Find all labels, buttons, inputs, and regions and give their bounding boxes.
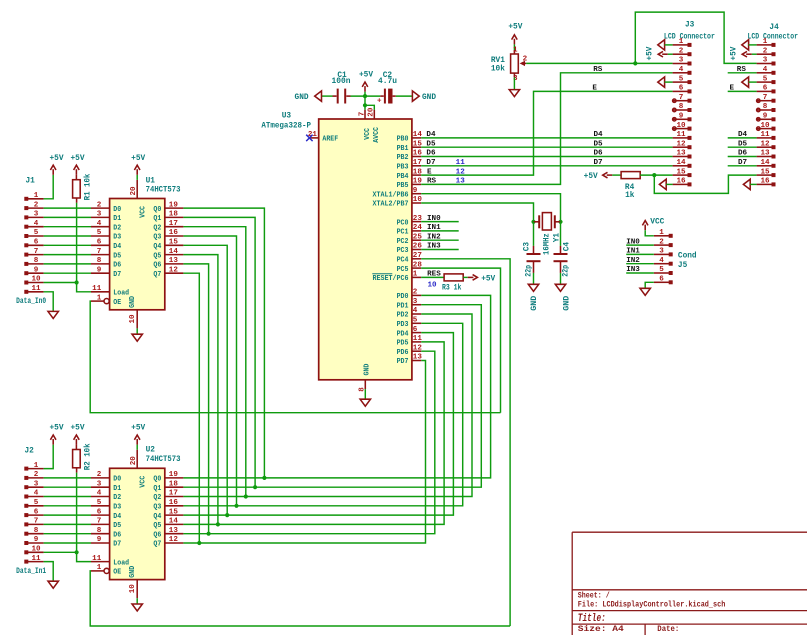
- svg-text:2: 2: [97, 471, 102, 479]
- wire R4 to J3.15: [640, 174, 672, 176]
- wire IN2 from U3.PC2: [421, 239, 459, 241]
- wire U1 Q7 down to bus junction: [183, 273, 199, 543]
- U1 pin 5 D3: [91, 235, 110, 237]
- svg-text:7: 7: [763, 94, 768, 102]
- wire J5.6 to GND: [645, 282, 654, 288]
- svg-text:Title:: Title:: [578, 613, 606, 625]
- svg-text:3: 3: [763, 57, 768, 65]
- svg-text:D7: D7: [113, 541, 121, 549]
- svg-text:2: 2: [523, 56, 528, 64]
- svg-text:Q1: Q1: [153, 485, 161, 493]
- svg-text:U1: U1: [146, 177, 156, 185]
- wire J1 pin2 to U1 D0: [44, 207, 91, 209]
- U2 +5V power symbol: [136, 445, 138, 450]
- J2 pin 6: [24, 513, 28, 517]
- svg-text:5: 5: [34, 229, 39, 237]
- svg-text:7: 7: [358, 111, 366, 116]
- svg-text:XTAL1/PB6: XTAL1/PB6: [373, 191, 409, 199]
- svg-text:11: 11: [760, 131, 770, 139]
- junction Q4 bus: [225, 513, 229, 517]
- svg-text:IN0: IN0: [626, 238, 640, 246]
- svg-text:E: E: [592, 84, 597, 92]
- wire J1 pin9 to U1 D7: [44, 272, 91, 274]
- wire J2 pin3 to U2 D1: [44, 486, 91, 488]
- U3 pin 26 PC3: [412, 249, 421, 251]
- wire J2 pin4 to U2 D2: [44, 496, 91, 498]
- svg-text:3: 3: [97, 211, 102, 219]
- U1 pin 13 Q6: [165, 263, 184, 265]
- R1 +5V power symbol: [75, 175, 77, 180]
- svg-text:PB0: PB0: [397, 136, 409, 144]
- svg-text:16: 16: [413, 150, 423, 158]
- svg-text:Q4: Q4: [153, 243, 161, 251]
- R2 +5V power symbol: [75, 445, 77, 450]
- U3 pin 10 XTAL2/PB7: [412, 202, 421, 204]
- GND power symbol left of C1: [315, 91, 322, 101]
- svg-text:Load: Load: [113, 559, 129, 567]
- svg-text:14: 14: [676, 159, 686, 167]
- svg-text:11: 11: [31, 555, 41, 563]
- svg-text:3: 3: [34, 480, 39, 488]
- J1 pin 5: [24, 234, 28, 238]
- svg-text:4: 4: [659, 257, 664, 265]
- J1 pin 6: [24, 243, 28, 247]
- svg-text:14: 14: [760, 159, 770, 167]
- U3 pin 17 PB3: [412, 165, 421, 167]
- J4 pin5 GND power symbol: [742, 77, 749, 87]
- J1 pin 7: [24, 253, 28, 257]
- U2 pin 10 GND: [136, 580, 138, 599]
- U3 pin 12 PD6: [412, 350, 421, 352]
- J4 pin 7: [757, 100, 773, 102]
- svg-text:AVCC: AVCC: [373, 127, 381, 143]
- svg-text:RV1: RV1: [491, 57, 505, 65]
- U3 +5V power symbol: [364, 92, 366, 96]
- svg-text:17: 17: [169, 490, 179, 498]
- J4 pin 5: [757, 81, 773, 83]
- svg-text:15: 15: [169, 239, 179, 247]
- svg-text:D7: D7: [594, 159, 604, 167]
- svg-text:9: 9: [97, 536, 102, 544]
- svg-text:J2: J2: [25, 448, 35, 456]
- svg-text:7: 7: [679, 94, 684, 102]
- svg-text:OE: OE: [113, 569, 121, 577]
- RV1 GND power symbol: [509, 90, 519, 97]
- svg-text:10k: 10k: [491, 65, 505, 73]
- wire IN0 to J5.2: [626, 244, 654, 246]
- svg-text:20: 20: [130, 456, 138, 466]
- J5 pin 4: [654, 263, 670, 265]
- junction wiper/J4 branch: [633, 61, 637, 65]
- svg-text:PD3: PD3: [397, 321, 409, 329]
- U2 pin 11 Load: [91, 561, 110, 563]
- svg-text:C4: C4: [563, 242, 571, 252]
- U3 pin 7 VCC: [364, 110, 366, 119]
- svg-text:GND: GND: [129, 296, 137, 308]
- J5 VCC power symbol: [644, 225, 646, 231]
- svg-text:4: 4: [97, 490, 102, 498]
- resistor R1 10k: [73, 180, 81, 198]
- J3 pin 6: [673, 90, 689, 92]
- wire XTAL2 U3 to crystal: [421, 203, 533, 222]
- U1 pin 2 D0: [91, 207, 110, 209]
- wire U1 Q5 down to bus junction: [183, 255, 218, 525]
- U1 pin 20 VCC: [136, 180, 138, 199]
- svg-text:PC2: PC2: [397, 238, 409, 246]
- svg-text:D4: D4: [113, 513, 121, 521]
- svg-text:RES: RES: [427, 271, 441, 279]
- no-connect X on AREF: [306, 135, 312, 141]
- J3 pin 13: [673, 156, 689, 158]
- wire U2 Q6 to U3 PD6: [183, 351, 434, 534]
- J3 pin 14: [673, 165, 689, 167]
- wire J2 pin1 to +5V: [44, 445, 54, 469]
- wire U1 Q1 down to bus junction: [183, 217, 255, 487]
- svg-text:Q6: Q6: [153, 262, 161, 270]
- svg-text:GND: GND: [295, 94, 309, 102]
- svg-text:D6: D6: [113, 262, 121, 270]
- svg-text:PD4: PD4: [397, 330, 409, 338]
- U3 pin 14 PB0: [412, 137, 421, 139]
- U3 pin 3 PD1: [412, 304, 421, 306]
- svg-text:PC3: PC3: [397, 247, 409, 255]
- wire U2 Q2 to U3 PD2: [183, 314, 472, 497]
- J4 pin 13: [757, 156, 773, 158]
- svg-text:26: 26: [413, 243, 423, 251]
- svg-text:7: 7: [34, 248, 39, 256]
- svg-text:18: 18: [413, 168, 423, 176]
- svg-text:Data_In1: Data_In1: [16, 568, 46, 576]
- U1 pin 17 Q2: [165, 226, 184, 228]
- wire U3.PC4 to U2.OE riser: [421, 259, 510, 626]
- svg-text:D6: D6: [113, 531, 121, 539]
- svg-text:PC4: PC4: [397, 257, 409, 265]
- wire IN1 from U3.PC1: [421, 230, 459, 232]
- svg-text:Q5: Q5: [153, 252, 161, 260]
- J1 GND power symbol: [48, 311, 58, 318]
- U1 pin 7 D5: [91, 254, 110, 256]
- svg-text:13: 13: [413, 354, 423, 362]
- J5 pin 6: [654, 281, 670, 283]
- svg-text:1: 1: [763, 38, 768, 46]
- U1 pin 1 OE inverted: [91, 300, 104, 302]
- J2 pin 2: [24, 476, 28, 480]
- wire R1 to U1 Load and J1.10: [76, 198, 78, 203]
- svg-text:3: 3: [34, 211, 39, 219]
- svg-text:VCC: VCC: [139, 206, 147, 218]
- svg-text:D5: D5: [113, 522, 121, 530]
- J2 pin 8: [24, 532, 28, 536]
- svg-text:GND: GND: [531, 295, 539, 310]
- svg-text:4: 4: [97, 220, 102, 228]
- J3 pin2 +5V power symbol: [662, 53, 668, 55]
- wire J1 pin11 to GND: [44, 292, 54, 311]
- U3 pin 18 PB4: [412, 174, 421, 176]
- svg-text:Q0: Q0: [153, 206, 161, 214]
- junction crystal left: [531, 220, 535, 224]
- svg-text:PB5: PB5: [397, 182, 409, 190]
- svg-text:5: 5: [659, 266, 664, 274]
- capacitor C1 100n: [337, 89, 339, 104]
- IC U1 74HCT573 body: [110, 199, 165, 310]
- svg-text:1: 1: [679, 38, 684, 46]
- U1 pin 12 Q7: [165, 272, 184, 274]
- capacitor C3 22p: [533, 246, 535, 254]
- svg-text:15: 15: [169, 508, 179, 516]
- J3 pin 3: [673, 63, 689, 65]
- svg-text:12: 12: [413, 344, 423, 352]
- U2 pin 6 D4: [91, 514, 110, 516]
- U2 pin 18 Q1: [165, 486, 184, 488]
- wire U3.PC5 to U1.OE riser: [421, 268, 500, 413]
- svg-text:6: 6: [34, 239, 39, 247]
- svg-text:6: 6: [413, 326, 418, 334]
- svg-text:2: 2: [763, 47, 768, 55]
- svg-text:15: 15: [413, 140, 423, 148]
- J2 pin 11: [24, 560, 28, 564]
- U2 pin 1 OE inverted: [91, 570, 104, 572]
- resistor R2 10k: [73, 450, 81, 468]
- U3 pin 23 PC0: [412, 221, 421, 223]
- wire +5V rail down to VCC/AVCC: [364, 96, 366, 105]
- svg-text:19: 19: [413, 178, 423, 186]
- svg-text:+5V: +5V: [131, 425, 145, 433]
- J4 pin 9: [757, 118, 773, 120]
- capacitor C4 22p: [560, 246, 562, 254]
- svg-text:D2: D2: [113, 224, 121, 232]
- J4 pin 8: [757, 109, 773, 111]
- svg-text:RS: RS: [737, 66, 747, 74]
- wire RESET to R3: [421, 276, 444, 278]
- svg-text:Data_In0: Data_In0: [16, 298, 46, 306]
- svg-text:3: 3: [97, 480, 102, 488]
- U1 pin 11 Load: [91, 291, 110, 293]
- svg-text:12: 12: [760, 140, 770, 148]
- wire C3 to GND: [533, 273, 535, 284]
- svg-text:14: 14: [413, 131, 423, 139]
- svg-text:PB1: PB1: [397, 145, 409, 153]
- svg-text:Date:: Date:: [657, 626, 679, 634]
- svg-text:16: 16: [169, 499, 179, 507]
- svg-text:PD6: PD6: [397, 349, 409, 357]
- wire J1 pin8 to U1 D6: [44, 263, 91, 265]
- wire wiper to J4.3 top loop: [635, 12, 756, 63]
- U2 GND power symbol: [136, 598, 138, 603]
- svg-text:+5V: +5V: [70, 425, 84, 433]
- C4 GND power symbol: [555, 284, 565, 291]
- svg-text:15: 15: [676, 168, 686, 176]
- U3 pin 1 RESET/PC6: [412, 276, 421, 278]
- svg-text:8: 8: [34, 257, 39, 265]
- svg-text:1: 1: [659, 229, 664, 237]
- svg-text:2: 2: [679, 47, 684, 55]
- J2 pin 5: [24, 504, 28, 508]
- svg-text:D6: D6: [594, 150, 604, 158]
- svg-text:Q0: Q0: [153, 476, 161, 484]
- svg-text:D5: D5: [113, 252, 121, 260]
- wire J4 D7 stub: [728, 165, 757, 167]
- wire J1 pin4 to U1 D2: [44, 226, 91, 228]
- svg-text:11: 11: [92, 285, 102, 293]
- svg-text:Q5: Q5: [153, 522, 161, 530]
- U2 pin 12 Q7: [165, 542, 184, 544]
- svg-text:D7: D7: [738, 159, 748, 167]
- U2 pin 9 D7: [91, 542, 110, 544]
- J4 pin 16: [757, 183, 773, 185]
- svg-text:LCD Connector: LCD Connector: [664, 33, 715, 41]
- svg-text:D7: D7: [113, 271, 121, 279]
- svg-text:+5V: +5V: [70, 155, 84, 163]
- svg-text:4.7u: 4.7u: [378, 78, 397, 86]
- J4 pin 6: [757, 90, 773, 92]
- svg-text:PB4: PB4: [397, 173, 409, 181]
- svg-text:10: 10: [129, 584, 137, 594]
- U2 pin 2 D0: [91, 477, 110, 479]
- svg-text:13: 13: [169, 527, 179, 535]
- svg-text:10: 10: [31, 276, 41, 284]
- svg-text:+5V: +5V: [730, 46, 738, 60]
- U1 pin 15 Q4: [165, 244, 184, 246]
- U1 pin 9 D7: [91, 272, 110, 274]
- wire J4 D5 stub: [728, 146, 757, 148]
- wire U1 Q2 down to bus junction: [183, 227, 245, 497]
- wire U2 Q5 to U3 PD5: [183, 342, 444, 525]
- junction crystal right: [558, 220, 562, 224]
- svg-text:27: 27: [413, 252, 423, 260]
- wire RS U3.PB5 to J3.4: [421, 73, 672, 185]
- svg-text:J3: J3: [685, 22, 695, 30]
- svg-text:5: 5: [97, 499, 102, 507]
- U3 pin 5 PD3: [412, 322, 421, 324]
- svg-text:14: 14: [169, 518, 179, 526]
- svg-text:+5V: +5V: [646, 46, 654, 60]
- J4 pin 10: [757, 128, 773, 130]
- svg-text:1: 1: [97, 564, 102, 572]
- U2 pin 14 Q5: [165, 523, 184, 525]
- svg-text:D3: D3: [113, 504, 121, 512]
- svg-text:IN2: IN2: [427, 233, 441, 241]
- svg-text:8: 8: [679, 103, 684, 111]
- svg-text:9: 9: [34, 266, 39, 274]
- svg-text:100n: 100n: [332, 78, 351, 86]
- junction Q3 bus: [234, 504, 238, 508]
- wire IN3 to J5.5: [626, 272, 654, 274]
- J1 pin 2: [24, 206, 28, 210]
- svg-text:11: 11: [31, 285, 41, 293]
- J3 pin 16: [673, 183, 689, 185]
- svg-text:+5V: +5V: [508, 23, 522, 31]
- svg-text:PC5: PC5: [397, 266, 409, 274]
- svg-text:6: 6: [763, 85, 768, 93]
- svg-text:8: 8: [34, 527, 39, 535]
- svg-text:D4: D4: [426, 131, 436, 139]
- svg-text:9: 9: [763, 113, 768, 121]
- svg-text:24: 24: [413, 224, 423, 232]
- svg-text:3: 3: [679, 57, 684, 65]
- svg-text:Sheet: /: Sheet: /: [578, 592, 610, 600]
- svg-text:C3: C3: [524, 242, 532, 252]
- J4 pin 15: [757, 174, 773, 176]
- svg-text:VCC: VCC: [139, 475, 147, 487]
- svg-text:R2 10k: R2 10k: [85, 443, 93, 470]
- svg-text:PB2: PB2: [397, 154, 409, 162]
- U3 pin 21 AREF: [309, 137, 318, 139]
- svg-text:D5: D5: [426, 140, 436, 148]
- svg-text:17: 17: [413, 159, 423, 167]
- U3 pin 13 PD7: [412, 360, 421, 362]
- svg-text:+5V: +5V: [49, 155, 63, 163]
- svg-text:2: 2: [34, 471, 39, 479]
- wire U2.OE run: [90, 571, 510, 626]
- U3 RESET overline: [372, 273, 392, 275]
- junction Q6 bus: [207, 532, 211, 536]
- svg-text:R3 1k: R3 1k: [442, 285, 462, 293]
- svg-text:IN3: IN3: [626, 266, 640, 274]
- U1 pin 19 Q0: [165, 207, 184, 209]
- svg-text:16MHz: 16MHz: [544, 233, 552, 255]
- J2 pin 7: [24, 522, 28, 526]
- svg-text:U2: U2: [146, 447, 156, 455]
- svg-text:14: 14: [169, 248, 179, 256]
- J4 pin 11: [757, 137, 773, 139]
- U3 GND power symbol: [360, 399, 370, 406]
- svg-text:RESET/PC6: RESET/PC6: [373, 275, 409, 283]
- svg-text:5: 5: [97, 229, 102, 237]
- J5 pin 3: [654, 253, 670, 255]
- svg-text:J1: J1: [26, 178, 36, 186]
- J3 pin 5: [673, 81, 689, 83]
- svg-text:12: 12: [169, 536, 179, 544]
- U2 pin 17 Q2: [165, 496, 184, 498]
- wire R2 to U2 Load and J2.10: [76, 468, 78, 473]
- svg-text:D6: D6: [738, 150, 748, 158]
- svg-text:PD0: PD0: [397, 293, 409, 301]
- svg-text:6: 6: [679, 85, 684, 93]
- svg-text:E: E: [730, 84, 735, 92]
- svg-text:2: 2: [34, 201, 39, 209]
- J1 pin 1: [24, 197, 28, 201]
- svg-text:J4: J4: [769, 24, 779, 32]
- IC U3 ATmega328-P body: [319, 119, 412, 380]
- wire decoupling rail: [322, 95, 333, 97]
- J4 pin 2: [757, 53, 773, 55]
- svg-text:18: 18: [169, 480, 179, 488]
- svg-text:+5V: +5V: [49, 425, 63, 433]
- wire crystal to C3: [533, 222, 535, 246]
- svg-text:D4: D4: [594, 131, 604, 139]
- wire J2 pin9 to U2 D7: [44, 542, 91, 544]
- J1 pin 9: [24, 271, 28, 275]
- wire J1 pin7 to U1 D5: [44, 254, 91, 256]
- wire D4 U3.PB0 to J3.11: [421, 137, 672, 139]
- svg-text:Q3: Q3: [153, 234, 161, 242]
- svg-text:PD7: PD7: [397, 358, 409, 366]
- svg-text:1: 1: [34, 192, 39, 200]
- svg-text:OE: OE: [113, 299, 121, 307]
- U3 pin 16 PB2: [412, 156, 421, 158]
- resistor R3 1k: [444, 274, 463, 281]
- svg-text:11: 11: [92, 555, 102, 563]
- U3 pin 24 PC1: [412, 230, 421, 232]
- wire D5 U3.PB1 to J3.12: [421, 146, 672, 148]
- J1 +5V power symbol: [52, 169, 54, 175]
- svg-text:22p: 22p: [563, 265, 571, 277]
- svg-text:XTAL2/PB7: XTAL2/PB7: [373, 201, 409, 209]
- svg-text:VCC: VCC: [650, 218, 664, 226]
- svg-text:Load: Load: [113, 290, 129, 298]
- U3 pin 11 PD5: [412, 341, 421, 343]
- wire U1 Q4 down to bus junction: [183, 245, 227, 515]
